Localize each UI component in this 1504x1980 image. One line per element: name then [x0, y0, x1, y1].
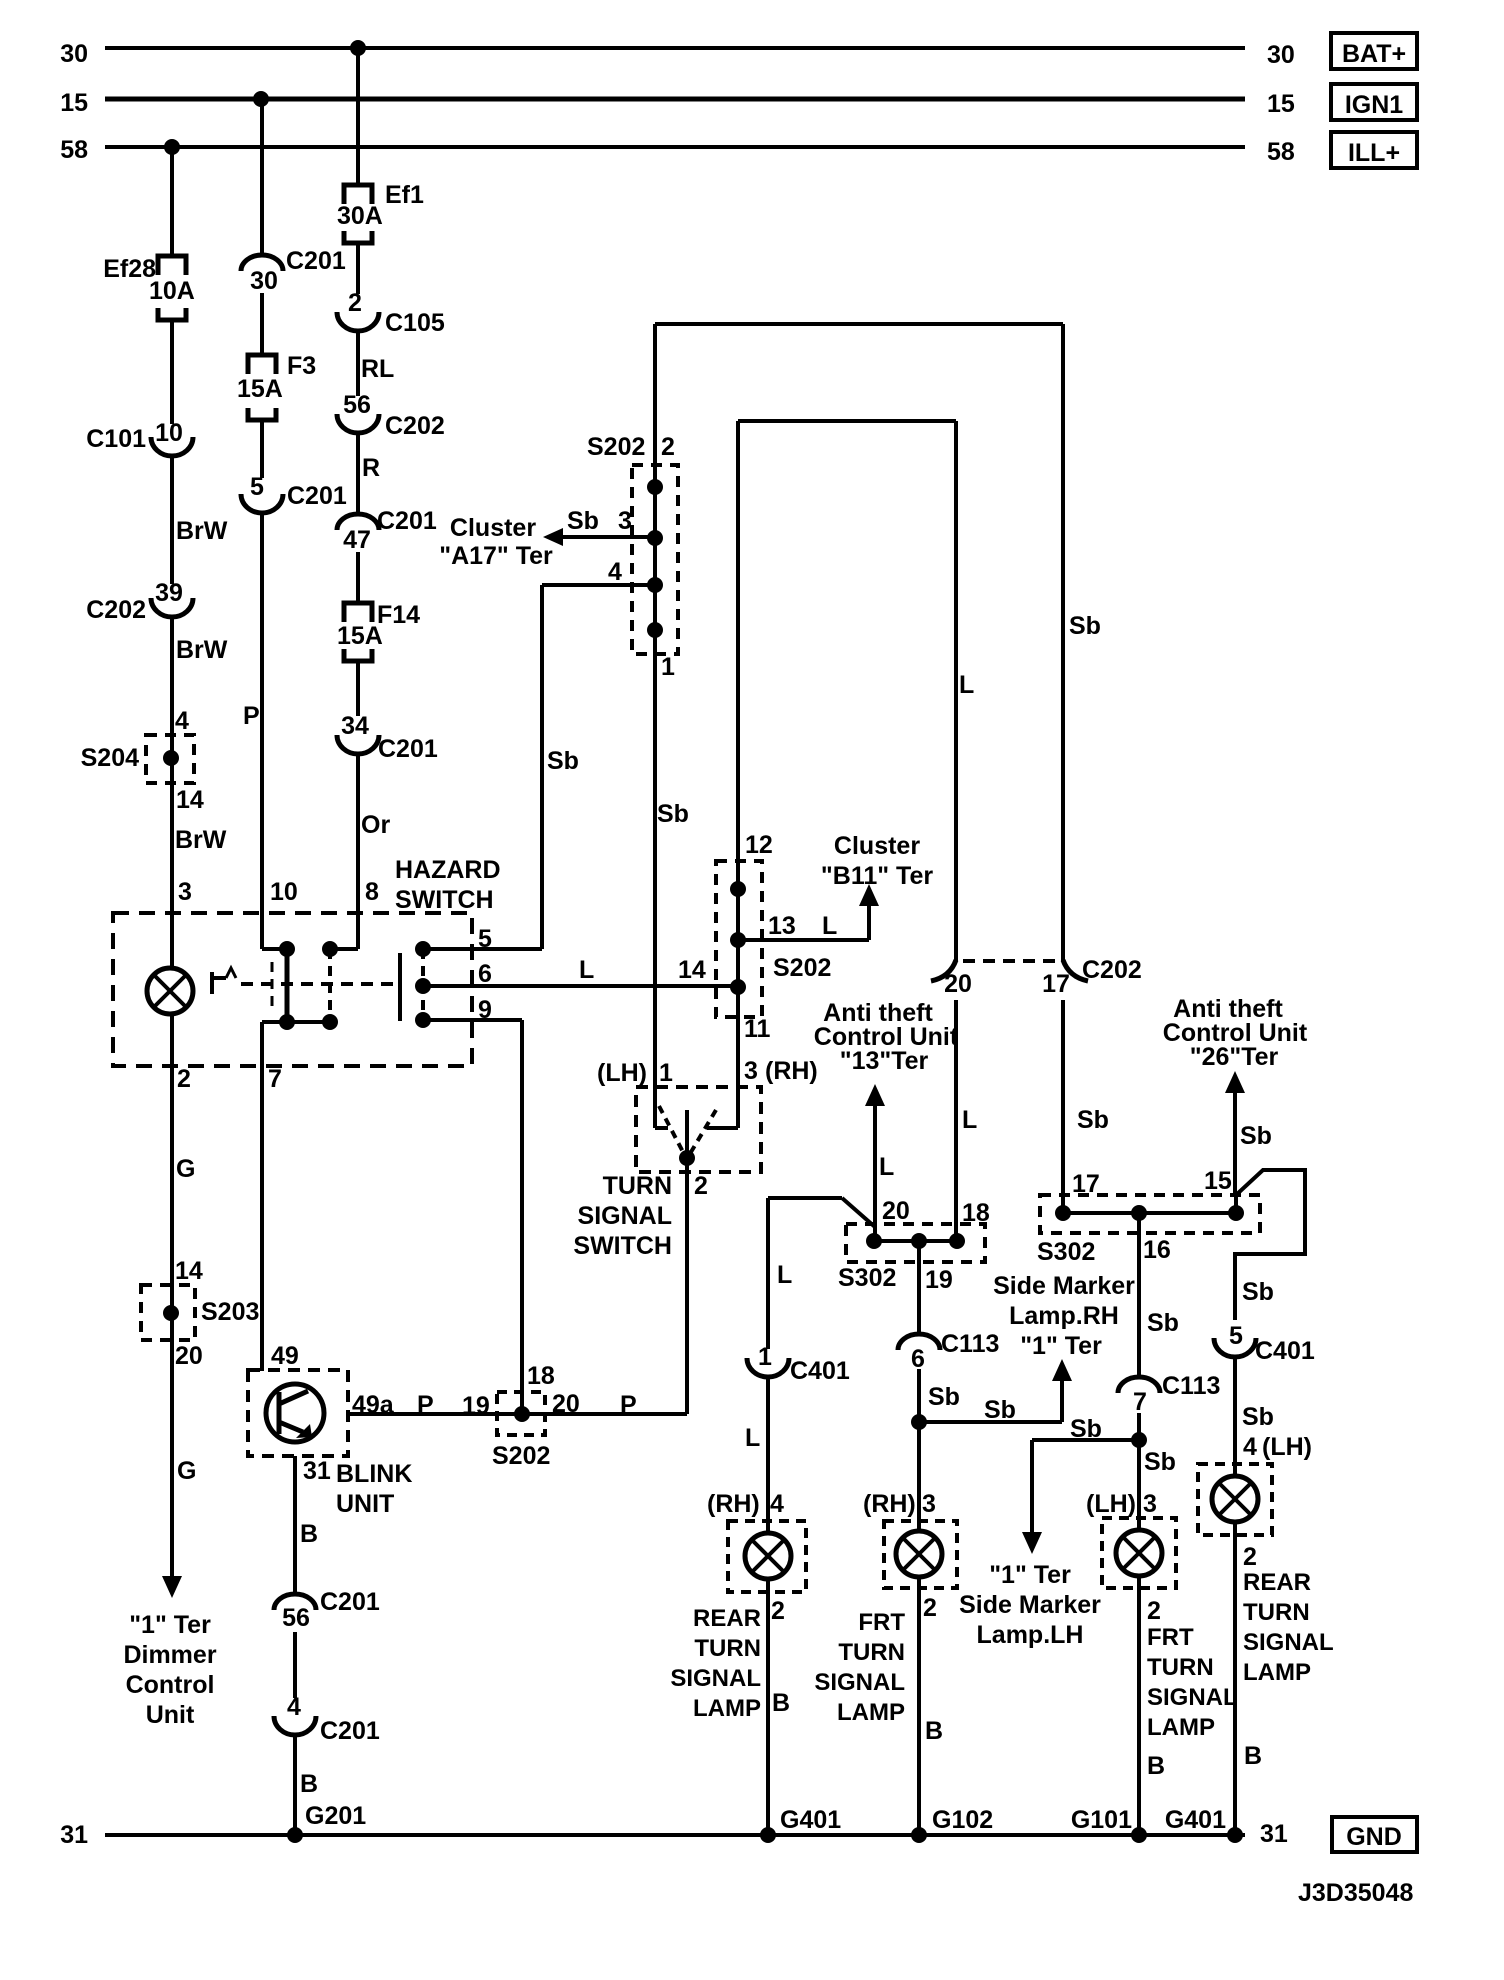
svg-text:C201: C201: [320, 1717, 380, 1745]
svg-text:6: 6: [478, 960, 492, 988]
svg-text:11: 11: [744, 1015, 771, 1043]
svg-text:G201: G201: [305, 1802, 366, 1830]
svg-text:S203: S203: [201, 1298, 259, 1326]
svg-text:F14: F14: [377, 601, 420, 629]
svg-text:"1" Ter: "1" Ter: [1020, 1332, 1102, 1360]
svg-text:P: P: [243, 702, 260, 730]
svg-text:FRT: FRT: [858, 1609, 905, 1636]
svg-text:2: 2: [1147, 1597, 1161, 1625]
svg-text:1: 1: [661, 653, 675, 681]
svg-text:C401: C401: [790, 1357, 850, 1385]
svg-text:7: 7: [268, 1065, 282, 1093]
svg-text:8: 8: [365, 878, 379, 906]
svg-text:C202: C202: [1082, 956, 1142, 984]
svg-text:31: 31: [60, 1821, 88, 1849]
svg-text:REAR: REAR: [693, 1605, 761, 1632]
svg-text:17: 17: [1072, 1170, 1100, 1198]
svg-text:TURN: TURN: [1147, 1654, 1214, 1681]
svg-text:1: 1: [659, 1059, 673, 1087]
svg-text:IGN1: IGN1: [1345, 91, 1403, 119]
svg-text:14: 14: [678, 956, 706, 984]
svg-text:R: R: [362, 454, 380, 482]
svg-text:30: 30: [60, 40, 88, 68]
svg-text:Control: Control: [126, 1671, 215, 1699]
svg-text:Ef1: Ef1: [385, 181, 424, 209]
svg-text:L: L: [879, 1153, 894, 1181]
svg-text:(RH): (RH): [765, 1057, 818, 1085]
svg-text:J3D35048: J3D35048: [1298, 1879, 1413, 1907]
svg-text:SIGNAL: SIGNAL: [1147, 1684, 1238, 1711]
svg-text:Sb: Sb: [1242, 1403, 1274, 1431]
svg-text:30A: 30A: [337, 202, 383, 230]
svg-text:3: 3: [1143, 1490, 1157, 1518]
svg-text:SWITCH: SWITCH: [573, 1232, 672, 1260]
svg-text:FRT: FRT: [1147, 1624, 1194, 1651]
svg-text:34: 34: [341, 712, 369, 740]
svg-text:UNIT: UNIT: [336, 1490, 394, 1518]
svg-text:B: B: [300, 1770, 318, 1798]
svg-text:TURN: TURN: [838, 1639, 905, 1666]
svg-text:10A: 10A: [149, 277, 195, 305]
svg-text:Side Marker: Side Marker: [959, 1591, 1101, 1619]
svg-text:20: 20: [944, 970, 972, 998]
svg-text:15: 15: [60, 89, 88, 117]
svg-text:C113: C113: [1162, 1372, 1220, 1400]
svg-text:TURN: TURN: [1243, 1599, 1310, 1626]
svg-text:(LH): (LH): [1262, 1433, 1312, 1461]
svg-text:Sb: Sb: [567, 507, 599, 535]
svg-text:GND: GND: [1346, 1823, 1402, 1851]
svg-text:Sb: Sb: [657, 800, 689, 828]
svg-text:Sb: Sb: [1069, 612, 1101, 640]
svg-text:4: 4: [287, 1693, 301, 1721]
svg-text:Sb: Sb: [984, 1396, 1016, 1424]
svg-text:(LH): (LH): [1086, 1490, 1136, 1518]
svg-text:HAZARD: HAZARD: [395, 856, 501, 884]
svg-text:4: 4: [175, 707, 189, 735]
svg-text:5: 5: [250, 473, 264, 501]
svg-text:BrW: BrW: [175, 826, 227, 854]
svg-text:BrW: BrW: [176, 636, 228, 664]
svg-text:Sb: Sb: [547, 747, 579, 775]
svg-text:2: 2: [661, 433, 675, 461]
svg-text:C101: C101: [86, 425, 146, 453]
svg-text:F3: F3: [287, 352, 316, 380]
svg-text:58: 58: [60, 136, 88, 164]
svg-text:TURN: TURN: [603, 1172, 672, 1200]
svg-text:REAR: REAR: [1243, 1569, 1311, 1596]
svg-text:30: 30: [250, 267, 278, 295]
svg-text:Sb: Sb: [1147, 1309, 1179, 1337]
svg-text:2: 2: [1243, 1543, 1257, 1571]
svg-text:4: 4: [1243, 1433, 1257, 1461]
svg-text:3: 3: [744, 1057, 758, 1085]
svg-text:BLINK: BLINK: [336, 1460, 412, 1488]
svg-text:S204: S204: [81, 744, 139, 772]
svg-text:SWITCH: SWITCH: [395, 886, 494, 914]
svg-text:LAMP: LAMP: [1147, 1714, 1215, 1741]
svg-text:B: B: [772, 1689, 790, 1717]
svg-text:ILL+: ILL+: [1348, 139, 1400, 167]
svg-text:17: 17: [1042, 970, 1070, 998]
svg-text:G102: G102: [932, 1806, 993, 1834]
svg-text:"26"Ter: "26"Ter: [1190, 1043, 1279, 1071]
svg-text:SIGNAL: SIGNAL: [1243, 1629, 1334, 1656]
svg-text:LAMP: LAMP: [693, 1695, 761, 1722]
svg-text:4: 4: [608, 558, 622, 586]
svg-text:LAMP: LAMP: [1243, 1659, 1311, 1686]
svg-text:56: 56: [343, 391, 371, 419]
svg-text:LAMP: LAMP: [837, 1699, 905, 1726]
svg-text:Cluster: Cluster: [834, 832, 920, 860]
svg-text:Unit: Unit: [146, 1701, 195, 1729]
svg-text:TURN: TURN: [694, 1635, 761, 1662]
svg-text:15: 15: [1267, 90, 1295, 118]
svg-text:G101: G101: [1071, 1806, 1132, 1834]
svg-text:39: 39: [155, 579, 183, 607]
svg-text:SIGNAL: SIGNAL: [814, 1669, 905, 1696]
svg-text:6: 6: [911, 1345, 925, 1373]
svg-text:14: 14: [176, 786, 204, 814]
svg-text:B: B: [1147, 1752, 1165, 1780]
svg-text:Lamp.LH: Lamp.LH: [977, 1621, 1084, 1649]
svg-text:Sb: Sb: [1242, 1278, 1274, 1306]
svg-text:C201: C201: [320, 1588, 380, 1616]
svg-text:L: L: [777, 1261, 792, 1289]
svg-text:C201: C201: [287, 482, 347, 510]
svg-text:20: 20: [175, 1342, 203, 1370]
svg-text:2: 2: [923, 1594, 937, 1622]
svg-text:15A: 15A: [237, 375, 283, 403]
svg-text:18: 18: [527, 1362, 555, 1390]
svg-text:RL: RL: [361, 355, 394, 383]
svg-text:15: 15: [1204, 1167, 1232, 1195]
svg-text:B: B: [1244, 1742, 1262, 1770]
svg-text:Side Marker: Side Marker: [993, 1272, 1135, 1300]
svg-text:C201: C201: [378, 735, 438, 763]
svg-text:58: 58: [1267, 138, 1295, 166]
svg-text:49: 49: [271, 1342, 299, 1370]
svg-text:10: 10: [270, 878, 298, 906]
svg-text:47: 47: [343, 526, 371, 554]
svg-text:56: 56: [282, 1604, 310, 1632]
svg-text:Sb: Sb: [1144, 1448, 1176, 1476]
svg-text:G: G: [177, 1457, 196, 1485]
svg-text:S302: S302: [1037, 1238, 1095, 1266]
svg-text:S302: S302: [838, 1264, 896, 1292]
svg-text:31: 31: [1260, 1820, 1288, 1848]
svg-text:3: 3: [922, 1490, 936, 1518]
svg-text:16: 16: [1143, 1236, 1171, 1264]
svg-text:4: 4: [770, 1490, 784, 1518]
svg-text:20: 20: [882, 1197, 910, 1225]
svg-text:"13"Ter: "13"Ter: [840, 1047, 929, 1075]
svg-text:10: 10: [155, 419, 183, 447]
svg-text:BrW: BrW: [176, 517, 228, 545]
svg-text:18: 18: [962, 1199, 990, 1227]
svg-text:14: 14: [175, 1257, 203, 1285]
svg-text:Sb: Sb: [928, 1383, 960, 1411]
svg-text:C202: C202: [385, 412, 445, 440]
svg-text:SIGNAL: SIGNAL: [670, 1665, 761, 1692]
svg-text:L: L: [962, 1106, 977, 1134]
svg-text:C401: C401: [1255, 1337, 1315, 1365]
svg-text:C113: C113: [941, 1330, 999, 1358]
svg-text:G: G: [176, 1155, 195, 1183]
svg-text:L: L: [579, 956, 594, 984]
svg-text:(LH): (LH): [597, 1059, 647, 1087]
svg-text:SIGNAL: SIGNAL: [578, 1202, 672, 1230]
svg-text:BAT+: BAT+: [1342, 40, 1406, 68]
svg-text:Cluster: Cluster: [450, 514, 536, 542]
svg-text:"1" Ter: "1" Ter: [129, 1611, 211, 1639]
svg-text:2: 2: [771, 1597, 785, 1625]
svg-text:Sb: Sb: [1077, 1106, 1109, 1134]
svg-text:15A: 15A: [337, 622, 383, 650]
svg-text:B: B: [300, 1520, 318, 1548]
svg-text:L: L: [822, 912, 837, 940]
svg-text:Or: Or: [361, 811, 390, 839]
svg-text:(RH): (RH): [707, 1490, 760, 1518]
svg-text:2: 2: [694, 1172, 708, 1200]
svg-text:"B11" Ter: "B11" Ter: [821, 862, 933, 890]
svg-text:12: 12: [745, 831, 773, 859]
svg-text:G401: G401: [1165, 1806, 1226, 1834]
svg-text:(RH): (RH): [863, 1490, 916, 1518]
svg-text:"1" Ter: "1" Ter: [989, 1561, 1071, 1589]
svg-text:Lamp.RH: Lamp.RH: [1009, 1302, 1119, 1330]
svg-text:C202: C202: [86, 596, 146, 624]
svg-text:2: 2: [177, 1065, 191, 1093]
svg-text:2: 2: [348, 289, 362, 317]
svg-text:Sb: Sb: [1070, 1415, 1102, 1443]
svg-text:S202: S202: [587, 433, 645, 461]
svg-text:B: B: [925, 1717, 943, 1745]
svg-text:Sb: Sb: [1240, 1122, 1272, 1150]
svg-text:"A17" Ter: "A17" Ter: [439, 542, 553, 570]
svg-text:G401: G401: [780, 1806, 841, 1834]
svg-text:C105: C105: [385, 309, 445, 337]
svg-text:C201: C201: [377, 507, 437, 535]
svg-text:Dimmer: Dimmer: [123, 1641, 216, 1669]
svg-text:L: L: [745, 1424, 760, 1452]
svg-text:S202: S202: [773, 954, 831, 982]
svg-text:1: 1: [758, 1343, 772, 1371]
svg-text:19: 19: [925, 1266, 953, 1294]
svg-text:C201: C201: [286, 247, 346, 275]
svg-text:30: 30: [1267, 41, 1295, 69]
svg-text:31: 31: [303, 1457, 331, 1485]
svg-text:13: 13: [768, 912, 796, 940]
svg-text:3: 3: [618, 507, 632, 535]
svg-text:7: 7: [1133, 1388, 1147, 1416]
svg-text:3: 3: [178, 878, 192, 906]
svg-text:L: L: [959, 671, 974, 699]
svg-text:5: 5: [1229, 1322, 1243, 1350]
svg-text:S202: S202: [492, 1442, 550, 1470]
